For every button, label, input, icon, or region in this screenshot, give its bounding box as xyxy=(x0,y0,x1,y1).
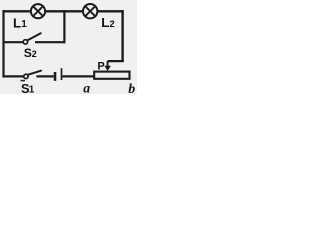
svg-text:P: P xyxy=(97,61,104,73)
stray mark above S1 label xyxy=(21,80,26,82)
rheostat body xyxy=(94,72,129,79)
switch S2 xyxy=(23,33,41,44)
lamp L2 xyxy=(83,4,97,18)
battery cell short plate xyxy=(54,72,57,81)
switch S1 xyxy=(24,71,41,79)
wire connector from top node down to S2 branch xyxy=(63,10,65,43)
battery cell long plate xyxy=(61,68,63,80)
svg-text:a: a xyxy=(83,81,90,94)
svg-text:1: 1 xyxy=(29,84,35,94)
svg-text:1: 1 xyxy=(21,19,27,30)
svg-text:b: b xyxy=(128,81,135,94)
wire right rail xyxy=(121,10,123,61)
svg-text:L: L xyxy=(101,15,109,30)
label L1 xyxy=(13,15,27,30)
wire bottom S1 to battery xyxy=(36,75,53,77)
svg-text:2: 2 xyxy=(109,19,114,30)
wire middle branch right segment xyxy=(35,41,65,43)
wire rheostat slider horizontal xyxy=(108,60,124,62)
terminal label b xyxy=(128,81,135,96)
label S1 xyxy=(21,81,35,96)
wire middle branch left segment xyxy=(3,41,23,43)
wire left rail xyxy=(2,10,4,77)
label S2 xyxy=(24,46,37,60)
wire bottom left xyxy=(3,75,24,77)
lamp L1 xyxy=(31,4,45,18)
terminal label a xyxy=(83,81,90,96)
label L2 xyxy=(101,15,114,30)
rheostat slider arrow xyxy=(104,61,111,71)
wire top xyxy=(3,10,124,12)
svg-text:L: L xyxy=(13,15,21,30)
svg-text:2: 2 xyxy=(32,49,37,59)
wire battery to rheostat xyxy=(62,75,94,77)
label P xyxy=(97,61,104,73)
